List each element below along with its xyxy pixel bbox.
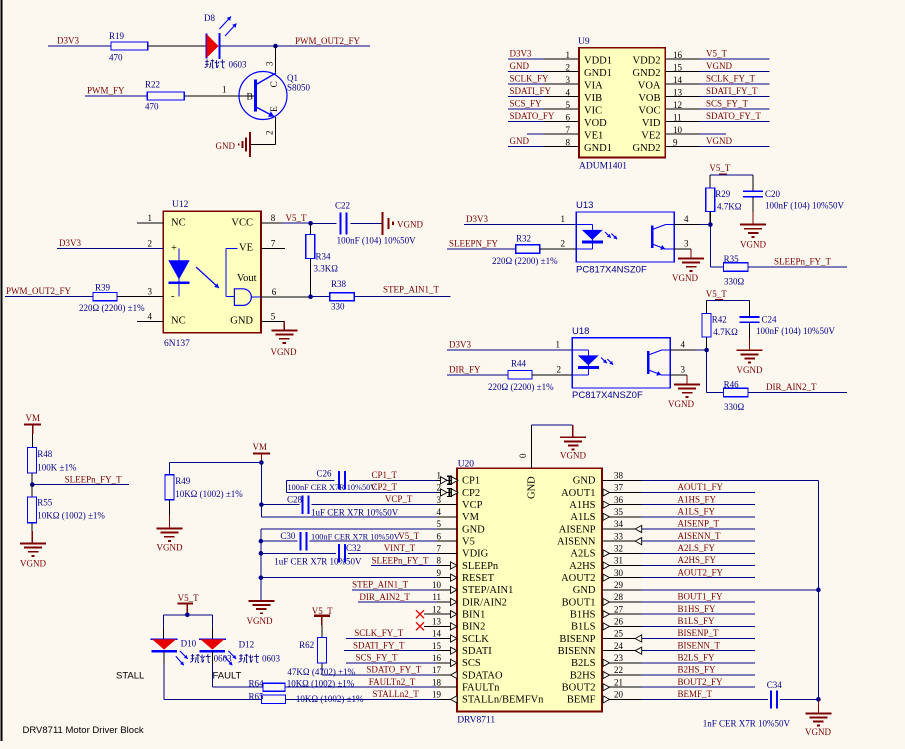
svg-text:6: 6 <box>566 112 571 122</box>
power V5_T (R62) <box>312 606 333 625</box>
svg-text:GND1: GND1 <box>584 143 612 154</box>
svg-text:BISENP: BISENP <box>559 634 595 645</box>
svg-text:R34: R34 <box>316 252 332 262</box>
LED D10 <box>151 638 232 665</box>
wire R44 to U18 pin2 <box>532 365 572 375</box>
svg-text:SCS_FY: SCS_FY <box>510 99 543 109</box>
IC U20 body <box>457 459 602 725</box>
U12 output gate <box>234 289 261 306</box>
svg-text:SCLK_FY_T: SCLK_FY_T <box>706 74 756 84</box>
U9 pin 1 VDD1 <box>508 49 612 67</box>
svg-text:BOUT1: BOUT1 <box>562 597 596 608</box>
node SLEEPn_FY_T (U20 pin8) <box>372 555 430 565</box>
power V5_T (R29) <box>709 163 730 174</box>
svg-text:DRV8711 Motor Driver Block: DRV8711 Motor Driver Block <box>23 725 144 736</box>
wire B2LS_FY <box>642 653 755 663</box>
wire CP2 <box>287 491 438 493</box>
svg-text:PC817X4NSZ0F: PC817X4NSZ0F <box>576 264 647 275</box>
optocoupler U12 body <box>163 200 261 349</box>
svg-text:7: 7 <box>566 125 571 135</box>
svg-text:36: 36 <box>614 495 624 505</box>
wire C34 to bus <box>780 698 819 700</box>
wire R49 to gnd <box>168 500 170 529</box>
U9 pin 12 VOC <box>638 99 769 117</box>
svg-text:BEMF: BEMF <box>567 695 596 706</box>
U12 pin 1 NC <box>137 213 186 228</box>
svg-text:-: - <box>171 291 175 302</box>
junction SLEEPn_FY_T divider <box>30 482 35 487</box>
U20 pin 6 V5 <box>437 531 475 547</box>
svg-text:11: 11 <box>432 592 441 602</box>
wire R22 to Q1 base <box>184 85 254 97</box>
svg-text:R38: R38 <box>331 279 347 289</box>
wire VCP with C28 <box>261 504 437 506</box>
node CP2_T <box>372 482 398 492</box>
wire BOUT2_FY <box>642 677 755 687</box>
svg-text:26: 26 <box>614 617 624 627</box>
wire C24 to gnd <box>749 322 751 350</box>
svg-text:13: 13 <box>432 617 442 627</box>
svg-text:3: 3 <box>681 365 686 375</box>
resistor R29 <box>706 188 742 212</box>
U20 pin 5 GND <box>437 519 486 535</box>
wire V5_T tee <box>710 175 753 192</box>
svg-text:SLEEPn_FY_T: SLEEPn_FY_T <box>774 256 832 266</box>
svg-text:10: 10 <box>432 580 442 590</box>
svg-text:R39: R39 <box>95 283 111 293</box>
U9 pin 3 VIA <box>508 74 603 92</box>
wire D3V3 to U13 pin1 <box>464 214 576 224</box>
U18 pin4 wire <box>670 340 707 350</box>
svg-text:E: E <box>270 106 280 112</box>
svg-text:330Ω: 330Ω <box>724 402 745 412</box>
svg-text:BOUT2_FY: BOUT2_FY <box>678 677 724 687</box>
svg-text:7: 7 <box>271 238 276 248</box>
svg-text:8: 8 <box>566 137 571 147</box>
resistor R38 <box>330 279 355 311</box>
resistor R46 <box>724 380 749 412</box>
wire SLEEPN_FY to R32 <box>447 248 516 250</box>
U20 pin 28 BOUT1 <box>562 592 642 608</box>
node D3V3 (U18) <box>449 339 471 349</box>
svg-text:PWM_FY: PWM_FY <box>87 85 125 95</box>
svg-text:16: 16 <box>432 653 442 663</box>
wire SCLK pin14 <box>346 628 437 638</box>
wire CP1 with C26 <box>287 480 438 492</box>
junction VM <box>259 460 264 465</box>
wire B1HS_FY <box>642 604 755 614</box>
U13 pin4 wire <box>674 214 710 224</box>
svg-text:12: 12 <box>432 604 441 614</box>
svg-text:SDATO_FY_T: SDATO_FY_T <box>366 665 421 675</box>
svg-text:U18: U18 <box>572 326 589 337</box>
U9 pin 5 VIC <box>508 99 602 117</box>
wire R39 to U12 pin3 <box>117 287 175 303</box>
svg-text:20: 20 <box>614 690 624 700</box>
svg-text:BIN2: BIN2 <box>462 622 485 633</box>
svg-text:24: 24 <box>614 641 624 651</box>
svg-text:SDATI_FY_T: SDATI_FY_T <box>353 640 405 650</box>
resistor R19 <box>109 31 148 63</box>
svg-text:3: 3 <box>437 495 442 505</box>
svg-text:470: 470 <box>145 102 159 112</box>
svg-text:D12: D12 <box>239 639 255 649</box>
wire R46 to DIR_AIN2_T <box>748 392 847 394</box>
text STALL <box>116 671 144 682</box>
resistor R42 <box>702 314 738 338</box>
svg-text:VGND: VGND <box>271 347 297 357</box>
svg-text:5: 5 <box>437 519 442 529</box>
resistor R34 <box>306 223 338 296</box>
transistor Q1 <box>239 72 311 120</box>
svg-text:1uF CER X7R 10%50V: 1uF CER X7R 10%50V <box>311 508 399 518</box>
svg-text:BIN1: BIN1 <box>462 609 485 620</box>
svg-text:VGND: VGND <box>706 61 732 71</box>
svg-text:V5_T: V5_T <box>178 593 199 603</box>
U20 pin 38 GND <box>573 471 642 487</box>
svg-text:38: 38 <box>614 471 624 481</box>
label red-lamp D10 <box>190 654 210 663</box>
wire PWM_OUT2_FY to R39 <box>5 296 93 298</box>
svg-text:C28: C28 <box>287 494 303 504</box>
svg-text:VDD1: VDD1 <box>584 56 612 67</box>
resistor R39 <box>79 283 145 314</box>
ground VGND at U18 pin3 <box>668 385 700 410</box>
svg-text:GND: GND <box>230 316 253 327</box>
svg-text:B2LS_FY: B2LS_FY <box>678 653 716 663</box>
svg-text:100nF CER X7R 10%50V: 100nF CER X7R 10%50V <box>288 483 377 492</box>
junction VGND rail at pin9 <box>259 575 264 580</box>
svg-text:BISENN_T: BISENN_T <box>678 640 721 650</box>
U20 pin 35 A1LS <box>570 507 641 523</box>
svg-text:VGND: VGND <box>157 543 183 553</box>
wire DIR pin11 <box>358 601 437 603</box>
svg-text:30: 30 <box>614 568 624 578</box>
svg-text:BEMF_T: BEMF_T <box>678 689 713 699</box>
svg-text:C32: C32 <box>346 543 361 553</box>
svg-text:GND2: GND2 <box>633 143 661 154</box>
wire V5 with C30 <box>261 540 437 542</box>
node V5_T (U12 pin8) <box>282 213 311 223</box>
svg-text:CP2_T: CP2_T <box>372 482 398 492</box>
svg-text:D10: D10 <box>181 638 197 648</box>
U20 pin 26 B1LS <box>571 617 642 633</box>
svg-text:R22: R22 <box>145 80 160 90</box>
svg-text:33: 33 <box>614 531 624 541</box>
resistor R32 <box>492 234 558 266</box>
svg-text:SCLK_FY: SCLK_FY <box>510 74 550 84</box>
wire D12 to R64 <box>212 651 263 687</box>
wire BISENN_T <box>642 640 755 650</box>
svg-text:5: 5 <box>271 311 276 321</box>
svg-text:BISENP_T: BISENP_T <box>678 628 720 638</box>
U18 pin3 wire <box>670 365 687 385</box>
svg-text:VGND: VGND <box>668 399 694 409</box>
svg-text:AISENP_T: AISENP_T <box>678 519 720 529</box>
svg-text:R29: R29 <box>715 189 731 199</box>
wire A1LS_FY <box>642 507 755 517</box>
svg-text:4: 4 <box>566 87 571 97</box>
svg-text:SLEEPn: SLEEPn <box>462 561 499 572</box>
svg-text:DIR_FY: DIR_FY <box>449 365 481 375</box>
wire R32 to U13 pin2 <box>540 239 576 249</box>
ground VGND at U20 top <box>560 425 586 460</box>
U12 pin5 GND <box>230 311 284 330</box>
svg-text:VCP_T: VCP_T <box>385 494 413 504</box>
U9 pin 9 GND2 <box>633 136 770 154</box>
svg-text:D3V3: D3V3 <box>57 36 79 46</box>
svg-text:SDATI_FY_T: SDATI_FY_T <box>706 86 758 96</box>
svg-text:6: 6 <box>272 287 277 297</box>
svg-text:GND: GND <box>462 524 485 535</box>
svg-text:SCS_FY_T: SCS_FY_T <box>706 99 749 109</box>
svg-text:15: 15 <box>432 641 442 651</box>
svg-text:R35: R35 <box>724 254 740 264</box>
wire C20 to gnd <box>752 197 754 225</box>
svg-text:+: + <box>171 243 177 254</box>
svg-text:16: 16 <box>673 50 683 60</box>
node VCP_T <box>385 494 413 504</box>
U20 pin 32 A2LS <box>570 544 641 560</box>
U20 pin 7 VDIG <box>437 544 489 560</box>
svg-text:VGND: VGND <box>737 365 763 375</box>
svg-text:B: B <box>247 93 253 103</box>
svg-text:3: 3 <box>265 61 275 66</box>
svg-text:DIR/AIN2: DIR/AIN2 <box>462 597 507 608</box>
svg-text:2: 2 <box>561 239 566 249</box>
U12 VE bracket <box>226 248 238 296</box>
junction bus pin20 <box>816 697 821 702</box>
ground VGND at bus <box>805 699 831 736</box>
wire R29 to junction <box>709 212 711 225</box>
resistor R44 <box>488 359 554 392</box>
label red-lamp D12 <box>239 654 259 663</box>
svg-text:SLEEPn_FY_T: SLEEPn_FY_T <box>65 474 123 484</box>
U20 pin 37 AOUT1 <box>561 483 642 499</box>
svg-text:5: 5 <box>566 100 571 110</box>
wire VM rail <box>261 463 437 517</box>
svg-text:47KΩ (4702) ±1%: 47KΩ (4702) ±1% <box>287 667 355 677</box>
wire R62 to pin17 row <box>321 663 323 675</box>
svg-text:19: 19 <box>432 690 442 700</box>
svg-text:4: 4 <box>681 340 686 350</box>
svg-text:D3V3: D3V3 <box>510 49 532 59</box>
svg-text:A2HS: A2HS <box>569 561 595 572</box>
wire D10 branch upper <box>163 615 165 639</box>
ground VGND at U13 pin3 <box>672 259 704 284</box>
pin 2 of Q1 <box>265 131 275 136</box>
svg-text:VOD: VOD <box>584 118 607 129</box>
U20 pin 10 STEP/AIN1 <box>432 580 513 596</box>
node SLEEPn_FY_T (U13 out) <box>774 256 832 266</box>
wire R48 to junction <box>31 473 33 485</box>
svg-text:R46: R46 <box>724 380 740 390</box>
capacitor C24 <box>740 315 836 337</box>
capacitor C22 <box>335 201 416 246</box>
svg-text:VOA: VOA <box>638 80 661 91</box>
junction VM rail at VCP <box>259 502 264 507</box>
svg-text:DIR_AIN2_T: DIR_AIN2_T <box>359 592 410 602</box>
capacitor C28 <box>287 494 399 517</box>
svg-text:C20: C20 <box>765 189 781 199</box>
U9 pin 11 VID <box>642 111 770 129</box>
U20 pin 23 B2LS <box>571 653 642 669</box>
svg-text:V5_T: V5_T <box>706 289 727 299</box>
svg-text:R48: R48 <box>37 449 53 459</box>
resistor R35 <box>724 254 749 286</box>
svg-text:C22: C22 <box>335 201 350 211</box>
U9 pin 13 VOB <box>638 86 769 104</box>
svg-text:VGND: VGND <box>740 239 766 249</box>
wire node to R35 <box>710 225 723 268</box>
svg-text:2: 2 <box>265 131 275 136</box>
svg-text:28: 28 <box>614 592 624 602</box>
svg-text:A2LS: A2LS <box>570 549 595 560</box>
optocoupler U18 body <box>572 326 670 401</box>
capacitor C20 <box>743 189 844 211</box>
svg-text:VOC: VOC <box>638 105 660 116</box>
svg-text:14: 14 <box>673 75 683 85</box>
svg-text:3.3KΩ: 3.3KΩ <box>314 264 339 274</box>
wire VDIG with C32 <box>261 552 437 554</box>
U20 pin 9 RESET <box>437 568 495 584</box>
svg-text:6: 6 <box>437 531 442 541</box>
node D3V3 (U12) <box>59 238 81 248</box>
svg-text:BOUT1_FY: BOUT1_FY <box>678 592 724 602</box>
wire D10 to R65 <box>164 651 261 699</box>
svg-text:B1HS_FY: B1HS_FY <box>678 604 717 614</box>
U20 pin 17 SDATAO <box>432 665 503 681</box>
svg-text:VGND: VGND <box>20 558 46 568</box>
U9 pin 8 GND1 <box>508 136 612 154</box>
svg-text:9: 9 <box>673 137 678 147</box>
ground VGND at U12 pin5 <box>271 331 298 358</box>
node DIR_AIN2_T (U18 out) <box>766 382 817 392</box>
svg-text:SCS_FY_T: SCS_FY_T <box>356 653 399 663</box>
U20 pin 1 CP1 <box>437 471 481 487</box>
svg-text:B1LS: B1LS <box>571 622 596 633</box>
ground VGND at C22 <box>383 212 424 235</box>
wire to SLEEPn_FY_T label <box>32 484 129 486</box>
svg-text:100nF (104) 10%50V: 100nF (104) 10%50V <box>756 326 835 336</box>
wire pin20 BEMF_T to C34 <box>642 698 769 700</box>
svg-text:DIR_AIN2_T: DIR_AIN2_T <box>766 382 817 392</box>
wire DIR_FY to R44 <box>447 374 508 376</box>
node D3V3 (top-left) <box>57 36 79 46</box>
svg-text:STALLn/BEMFVn: STALLn/BEMFVn <box>462 695 544 706</box>
svg-text:U13: U13 <box>576 200 593 211</box>
svg-text:ADUM1401: ADUM1401 <box>579 162 627 172</box>
optocoupler U13 body <box>576 200 674 275</box>
svg-text:GND: GND <box>510 61 530 71</box>
U20 pin 34 AISENP <box>559 519 642 535</box>
svg-text:32: 32 <box>614 544 623 554</box>
svg-text:VGND: VGND <box>560 450 586 460</box>
U9 pin 15 GND2 <box>633 61 770 79</box>
svg-text:C24: C24 <box>762 315 778 325</box>
text FAULT <box>213 671 242 682</box>
svg-text:R49: R49 <box>175 476 191 486</box>
svg-text:2: 2 <box>148 238 153 248</box>
svg-text:25: 25 <box>614 629 624 639</box>
junction U18 pin4 node <box>704 348 709 353</box>
svg-text:11: 11 <box>673 112 682 122</box>
resistor R55 <box>28 485 106 523</box>
wire STALLn pin19 <box>286 689 437 699</box>
svg-text:A2LS_FY: A2LS_FY <box>678 543 716 553</box>
U20 pin 25 BISENP <box>559 629 641 645</box>
svg-text:21: 21 <box>614 677 623 687</box>
svg-text:SCLK: SCLK <box>462 634 489 645</box>
svg-text:2: 2 <box>557 365 562 375</box>
svg-text:10KΩ (1002) ±1%: 10KΩ (1002) ±1% <box>296 694 364 704</box>
U12 pin7 VE <box>239 238 285 253</box>
node VINT_T <box>384 543 416 553</box>
svg-text:100nF (104) 10%50V: 100nF (104) 10%50V <box>765 201 844 211</box>
U12 internal LED <box>168 248 189 296</box>
wire C22 to VGND <box>350 222 381 224</box>
ground VGND at R49 <box>156 529 183 553</box>
svg-text:4.7KΩ: 4.7KΩ <box>717 202 742 212</box>
U20 pin 19 STALLn/BEMFVn <box>432 690 544 706</box>
svg-text:GND1: GND1 <box>584 68 612 79</box>
svg-text:SDATO_FY: SDATO_FY <box>510 111 555 121</box>
svg-text:15: 15 <box>673 62 683 72</box>
svg-text:U20: U20 <box>458 459 475 469</box>
node STEP_AIN1_T (U20) <box>352 580 409 590</box>
svg-text:STALLn2_T: STALLn2_T <box>373 689 420 699</box>
svg-text:10KΩ (1002) ±1%: 10KΩ (1002) ±1% <box>37 511 105 521</box>
sheet border (left edge line) <box>1 0 3 741</box>
svg-text:V5_T: V5_T <box>398 531 419 541</box>
wire R19 to D8 <box>148 45 207 47</box>
svg-text:A1LS_FY: A1LS_FY <box>678 507 716 517</box>
U9 pin 4 VIB <box>508 86 602 104</box>
svg-text:1: 1 <box>222 85 227 95</box>
wire D8 to PWM_OUT2_FY <box>220 45 370 47</box>
svg-text:18: 18 <box>432 677 442 687</box>
wire collector <box>275 46 277 73</box>
svg-text:1: 1 <box>561 214 566 224</box>
U20 pin 11 DIR/AIN2 <box>432 592 507 608</box>
svg-text:27: 27 <box>614 604 624 614</box>
U13 pin3 wire <box>674 239 691 259</box>
svg-text:B2LS: B2LS <box>571 658 596 669</box>
svg-text:100nF CER X7R 10%50V: 100nF CER X7R 10%50V <box>311 532 400 541</box>
svg-text:VIC: VIC <box>584 105 602 116</box>
svg-text:R55: R55 <box>37 498 53 508</box>
U20 pin 22 B2HS <box>570 665 642 681</box>
svg-text:1: 1 <box>566 50 571 60</box>
ground GND at Q1 <box>216 132 250 157</box>
svg-text:37: 37 <box>614 483 624 493</box>
node SLEEPN_FY <box>449 239 499 249</box>
wire D3V3 to R19 <box>48 45 111 47</box>
svg-text:1: 1 <box>148 213 153 223</box>
wire pin29 GND to bus <box>642 589 819 591</box>
U20 pin 15 SDATI <box>432 641 492 657</box>
node PWM_OUT2_FY (U12) <box>6 286 72 296</box>
svg-text:3: 3 <box>566 75 571 85</box>
wire R55 to gnd <box>31 523 33 544</box>
svg-text:SLEEPN_FY: SLEEPN_FY <box>449 239 499 249</box>
svg-text:R42: R42 <box>712 315 727 325</box>
svg-text:SCS: SCS <box>462 658 481 669</box>
node STEP_AIN1_T <box>383 285 440 295</box>
U9 pin 6 VOD <box>508 111 607 129</box>
svg-text:FAULT: FAULT <box>213 671 242 682</box>
wire AOUT2_FY <box>642 567 755 577</box>
